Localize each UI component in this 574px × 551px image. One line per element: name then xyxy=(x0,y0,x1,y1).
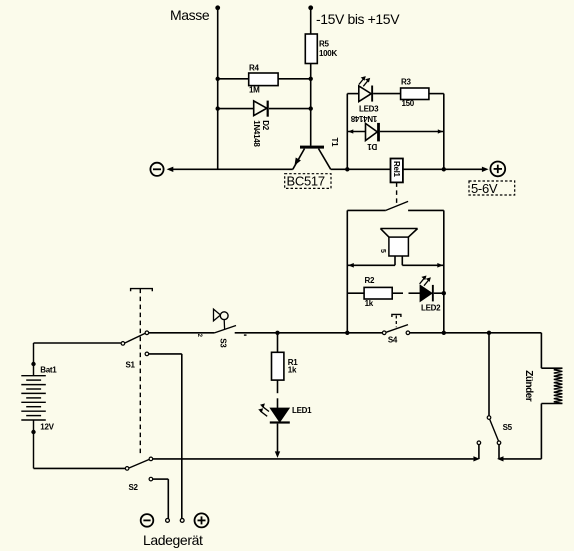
arrow rail2 right xyxy=(437,263,443,268)
junction rail1 left loop xyxy=(345,167,349,171)
svg-text:1k: 1k xyxy=(365,299,374,308)
igniter Zuender xyxy=(523,333,563,459)
junction R4 right xyxy=(309,77,313,81)
wire LED3 row xyxy=(347,93,359,95)
LED LED1 xyxy=(258,403,312,423)
svg-text:R2: R2 xyxy=(365,276,375,285)
wire D1 row left xyxy=(347,131,365,133)
wire block right vertical xyxy=(443,210,445,332)
label S1 xyxy=(126,360,136,369)
svg-text:S5: S5 xyxy=(503,423,513,432)
svg-text:T1: T1 xyxy=(330,138,339,148)
wire block left vertical xyxy=(346,210,348,332)
junction D2 left xyxy=(216,106,220,110)
wire battery top to S1 xyxy=(34,342,121,344)
arrow bottom rail right end xyxy=(497,456,504,461)
svg-text:5: 5 xyxy=(379,249,386,253)
wire supply vertical lower to T1 base xyxy=(310,64,312,146)
resistor R4 xyxy=(249,63,278,94)
terminal minus left xyxy=(150,163,163,176)
svg-text:-15V bis +15V: -15V bis +15V xyxy=(316,11,400,27)
resistor R5 xyxy=(305,34,337,64)
dashed relay actuation line xyxy=(396,182,398,204)
label Ladegeraet xyxy=(143,532,203,548)
arrow D1 right xyxy=(438,129,443,133)
wire rail2 right xyxy=(402,264,444,266)
arrow at minus terminal xyxy=(167,167,174,172)
node supply top dot xyxy=(308,5,313,10)
junction block left bottom xyxy=(345,331,349,335)
wire D1 row right xyxy=(380,131,444,133)
wire R2 to LED2 xyxy=(392,292,403,294)
svg-text:S4: S4 xyxy=(388,336,398,345)
relay contact row right wire xyxy=(408,209,444,211)
wire S5 right contact drop xyxy=(498,445,500,459)
svg-text:S3: S3 xyxy=(218,338,227,348)
gang dashed line xyxy=(139,289,141,456)
svg-text:1N4148: 1N4148 xyxy=(350,114,377,123)
junction LED2 right xyxy=(442,291,446,295)
S3 pin mark 2 xyxy=(196,334,202,338)
terminal plus right xyxy=(490,162,505,177)
svg-text:LED3: LED3 xyxy=(359,104,379,113)
wire R2 row left xyxy=(347,292,364,294)
LED LED3 xyxy=(359,76,379,113)
wire D2 row right xyxy=(269,108,311,110)
svg-text:LED1: LED1 xyxy=(292,406,312,415)
resistor R1 xyxy=(272,352,299,380)
svg-text:S1: S1 xyxy=(126,360,136,369)
net label -15V bis +15V xyxy=(316,11,400,27)
svg-text:R3: R3 xyxy=(401,77,411,86)
wire R4 row left xyxy=(218,78,249,80)
charger terminal plus xyxy=(195,513,209,527)
wire LED3 to R3 xyxy=(373,93,401,95)
arrow D1 left xyxy=(348,129,353,133)
svg-text:12V: 12V xyxy=(40,422,54,431)
svg-text:150: 150 xyxy=(402,99,415,108)
wire R3 right xyxy=(429,93,444,95)
label 5-6V xyxy=(469,181,515,196)
wire LED2 right xyxy=(434,292,444,294)
label S2 xyxy=(129,483,139,492)
switch S4 T-bar xyxy=(392,314,401,317)
wire LED3 loop right vertical xyxy=(443,94,445,170)
arrow bottom rail left end xyxy=(473,456,480,461)
wire supply vertical upper xyxy=(310,8,312,34)
svg-text:D2: D2 xyxy=(261,120,270,130)
wire S1 lower throw xyxy=(149,353,182,355)
wire LED3 loop left vertical xyxy=(346,94,348,170)
switch S5 blade xyxy=(490,419,499,441)
switch S4 dashed stem xyxy=(395,316,397,328)
svg-text:R5: R5 xyxy=(319,40,329,49)
junction S5 tap xyxy=(487,331,491,335)
wire rail2 left xyxy=(347,264,395,266)
LED LED2 xyxy=(420,276,442,313)
svg-text:1M: 1M xyxy=(249,86,260,95)
wire rail1 left segment xyxy=(172,168,293,170)
net label Masse xyxy=(170,7,210,23)
wire rail1 right segment xyxy=(331,168,391,170)
switch S1 blade xyxy=(125,333,145,343)
svg-text:BC517: BC517 xyxy=(287,173,325,188)
charger terminal small right xyxy=(180,519,184,523)
label S5 xyxy=(503,423,513,432)
relay contact blade xyxy=(386,201,408,210)
relay contact row left wire xyxy=(347,209,386,211)
junction D2 right xyxy=(309,106,313,110)
svg-text:Ladegerät: Ladegerät xyxy=(143,532,203,548)
S3 pin mark 1 xyxy=(244,334,247,335)
wire bottom rail left xyxy=(153,458,474,460)
resistor R2 xyxy=(364,276,392,308)
wire S5 left contact drop xyxy=(478,445,480,459)
svg-text:100K: 100K xyxy=(319,49,337,58)
switch S3 horn symbol xyxy=(214,309,229,329)
diode D1 xyxy=(350,114,380,151)
label S4 xyxy=(388,336,398,345)
svg-text:Zünder: Zünder xyxy=(523,370,534,401)
svg-text:1k: 1k xyxy=(288,366,297,375)
wire battery bottom to S2 xyxy=(34,467,126,469)
label S3 xyxy=(218,338,227,348)
switch S5 bottom left contact xyxy=(477,441,481,445)
charger terminal minus xyxy=(141,514,154,527)
wire left vertical from Masse xyxy=(217,8,219,170)
switch S4 contacts xyxy=(382,331,386,335)
resistor R3 xyxy=(401,77,429,108)
speaker xyxy=(379,229,418,266)
diode D2 xyxy=(252,101,270,148)
wire LED1 to bottom rail xyxy=(277,424,279,453)
switch S2 contacts xyxy=(125,467,129,471)
wire R1 to LED1 xyxy=(277,380,279,393)
wire R4 row right xyxy=(278,78,311,80)
switch S5 top contact xyxy=(487,416,491,420)
svg-text:Masse: Masse xyxy=(170,7,210,23)
switch S1 contacts xyxy=(121,342,125,346)
svg-text:D1: D1 xyxy=(367,142,377,151)
svg-text:R4: R4 xyxy=(249,63,259,72)
svg-text:LED2: LED2 xyxy=(421,304,441,313)
junction block right bottom xyxy=(442,331,446,335)
switch S2 blade xyxy=(129,460,149,469)
svg-text:5-6V: 5-6V xyxy=(471,181,498,196)
switch S5 bottom right contact xyxy=(497,441,501,445)
wire main rail S1 to S3 xyxy=(149,332,215,334)
wire S1 throw drop to charger xyxy=(181,354,183,519)
battery Bat1 xyxy=(21,343,57,468)
arrow rail2 left xyxy=(348,263,354,268)
arrow at plus terminal xyxy=(482,167,489,172)
junction R1 tap xyxy=(275,331,279,335)
transistor T1 xyxy=(293,138,339,170)
wire rail1 right of relay xyxy=(403,168,482,170)
wire bottom rail right (Zuender to S5) xyxy=(503,458,541,460)
svg-text:1N4148: 1N4148 xyxy=(252,120,261,147)
wire R1 branch top xyxy=(277,333,279,353)
node Masse top dot xyxy=(215,5,220,10)
wire main rail S3 to S4 xyxy=(235,332,383,334)
relay coil Rel1 xyxy=(391,159,403,183)
label BC517 xyxy=(285,173,331,188)
junction rail1 right loop xyxy=(442,167,446,171)
svg-text:S2: S2 xyxy=(129,483,139,492)
wire S5 vertical xyxy=(488,333,490,416)
charger terminal small left xyxy=(166,519,170,523)
switch S3 blade xyxy=(214,326,236,333)
junction R4 left xyxy=(216,77,220,81)
gang T-bar S1/S2 xyxy=(131,289,153,292)
wire main rail S4 to Zuender corner xyxy=(410,332,542,334)
wire S2 lower throw xyxy=(153,478,168,480)
svg-text:Bat1: Bat1 xyxy=(40,365,57,374)
wire S2 throw drop to charger xyxy=(167,479,169,518)
svg-text:Rel1: Rel1 xyxy=(392,161,401,178)
wire D2 row left xyxy=(218,108,254,110)
arrow LED1 onto rail xyxy=(275,451,280,458)
switch S4 blade xyxy=(386,325,408,333)
